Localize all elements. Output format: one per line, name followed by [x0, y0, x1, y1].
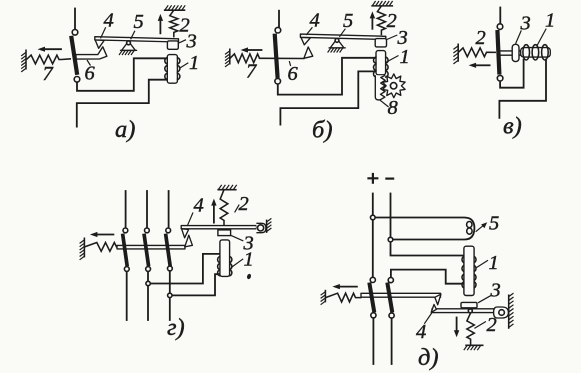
pivot node: blade top circle (panel v): [497, 24, 503, 30]
armature block 3 (panel g): [218, 230, 231, 236]
node: blade top circles (panel g): [123, 228, 128, 233]
label 1 leader (panel a): [180, 63, 189, 69]
pivot node: blade bottom circle (panel b): [275, 78, 281, 84]
panel d) schematic group: [321, 173, 514, 371]
contact blade 6 (panel b): [275, 34, 278, 78]
svg-text:6: 6: [85, 63, 96, 85]
spring 2 (panel a): [170, 10, 178, 37]
label 3 leader (panel g): [231, 235, 243, 241]
arrow: release direction left (panel g): [97, 234, 113, 236]
ceiling anchor with hatching (panel g): [217, 189, 236, 191]
gear wheel 8 (panel b): [383, 74, 406, 98]
svg-text:а): а): [115, 116, 135, 143]
coil 1 (panel g): [220, 240, 230, 277]
node: junction phase 2 (panel g): [146, 281, 150, 285]
arrow: pull direction up (panel g): [213, 206, 215, 223]
label 5 leader (panel a): [131, 31, 135, 40]
arrow: armature pull direction up (panel a): [159, 21, 161, 33]
lever 4 bar (panel a): [95, 37, 179, 42]
arrow: release direction left (panel d): [340, 286, 357, 288]
contact blade 2 on minus line (panel d): [387, 283, 392, 313]
holding winding 5 turns (panel d): [467, 222, 472, 228]
label 4 leader (panel b): [306, 27, 312, 35]
svg-text:1: 1: [545, 10, 555, 32]
wire: phase line 1 lower (panel g): [126, 272, 128, 321]
spring 7 (panel b): [230, 54, 262, 63]
arrow: release direction left (panel a): [45, 48, 61, 50]
actuating rod (panel g): [117, 245, 185, 249]
spring 2 below lever (panel d): [467, 313, 474, 345]
spring (panel g): [85, 243, 119, 252]
node: blade bottom circles (panel g): [124, 267, 129, 272]
actuating rod through blade (panel b): [262, 57, 305, 59]
arrow: release direction left (panel b): [248, 49, 262, 51]
svg-text:5: 5: [489, 213, 499, 235]
label minus terminal (panel d): [385, 178, 394, 180]
svg-text:6: 6: [288, 63, 299, 85]
wire: from blade bottom to coil 1 left terminal (panel v): [500, 60, 523, 88]
coil 1 body (panel v): [521, 48, 551, 58]
svg-text:4: 4: [416, 321, 426, 343]
armature block 3 on lever (panel d): [461, 302, 477, 307]
lever 4 left hook pointing up (panel d): [431, 305, 436, 313]
svg-text:3: 3: [186, 31, 197, 53]
svg-text:5: 5: [134, 11, 144, 33]
pivot node: blade bottom circle (panel v): [497, 75, 503, 81]
wall anchor left (panel d): [324, 290, 326, 303]
wire: plus line lower (panel d): [372, 318, 374, 364]
svg-text:4: 4: [310, 10, 320, 32]
label 2 leader (panel d): [474, 322, 486, 329]
contact blade phase 1 (panel g): [123, 234, 128, 267]
lever 4 left hook (panel g): [182, 229, 189, 238]
svg-text:4: 4: [194, 195, 204, 217]
label 6 leader (panel b): [289, 61, 290, 66]
wire: from coil 1 lower terminal to lower supply stub (panel b): [280, 71, 376, 124]
ceiling anchor with hatching (panel a): [164, 9, 185, 11]
rod latch hook (panel b): [304, 47, 313, 58]
label 5 leader (panel b): [339, 29, 345, 37]
wire: minus line to coil top terminal (panel d): [391, 242, 463, 256]
contact finger of blade (panel a): [76, 47, 107, 59]
arrow: release direction left (panel v): [476, 64, 490, 66]
coil 1 (panel a): [167, 55, 177, 84]
label 4 leader (panel a): [101, 27, 106, 38]
label 1 leader (panel v): [537, 29, 547, 47]
label 1 leader (panel d): [476, 260, 488, 267]
wire: minus line upper (panel d): [390, 194, 392, 238]
armature bead 3 on rod (panel v): [512, 44, 519, 61]
svg-text:2: 2: [476, 27, 486, 49]
label 5 arrow leader (panel d): [476, 225, 485, 232]
svg-text:д): д): [418, 344, 439, 371]
contact blade phase 2 (panel g): [144, 234, 149, 267]
wall anchor left (panel g): [83, 238, 85, 258]
node: junction on plus line (panel d): [371, 215, 376, 220]
svg-text:5: 5: [343, 10, 353, 32]
lever 4 left hook (panel a): [95, 40, 104, 48]
actuating rod (panel d): [361, 293, 441, 297]
contact blade 6 (panel a): [71, 36, 77, 75]
lever pivot bracket at wall (panel g): [256, 223, 266, 232]
label plus terminal (panel d): [367, 173, 378, 184]
spring 7 (panel a): [27, 55, 72, 64]
node: blade 2 top circle (panel d): [388, 278, 393, 283]
spring (panel d): [326, 293, 362, 302]
arrow: armature pull direction up (panel b): [371, 18, 373, 28]
node: spring attachment circle on lever (panel d): [468, 309, 472, 313]
svg-text:1: 1: [189, 52, 199, 74]
panel b) schematic group: [225, 1, 410, 144]
svg-text:в): в): [503, 113, 522, 140]
wall anchor right (panel g): [266, 220, 268, 233]
rod latch hook pointing down (panel d): [435, 294, 441, 305]
label 3 leader (panel d): [478, 296, 491, 303]
label 3 leader (panel a): [179, 40, 186, 43]
armature block 3 (panel a): [167, 41, 178, 49]
wire: supply lead top (panel b): [278, 11, 280, 27]
coil 1 (panel d): [464, 246, 474, 295]
svg-text:1: 1: [489, 252, 499, 274]
svg-text:3: 3: [520, 13, 531, 35]
node: blade 1 top circle (panel d): [370, 277, 375, 282]
wire: phase line 1 upper (panel g): [125, 191, 127, 228]
label 4 leader (panel d): [424, 313, 432, 324]
spring 2 (panel v): [458, 48, 496, 57]
svg-text:7: 7: [43, 63, 54, 85]
ink speck under label 1 (panel g): [246, 273, 251, 279]
wall anchor right (panel d): [508, 295, 510, 329]
wire: phase line 2 lower (panel g): [147, 272, 149, 321]
svg-text:г): г): [167, 314, 185, 341]
wire: supply lead top (panel v): [499, 8, 501, 24]
rod latch hook (panel g): [185, 235, 193, 247]
spring 2 (panel g): [220, 190, 228, 226]
wire: from coil 1 right terminal to lower supply stub (panel v): [499, 60, 546, 118]
svg-text:8: 8: [388, 97, 399, 119]
fulcrum 5 triangle with base hatching (panel b): [330, 39, 344, 48]
holding winding 5 top run (panel d): [375, 218, 474, 240]
ceiling anchor with hatching (panel b): [371, 5, 393, 7]
label 3 leader (panel v): [516, 30, 522, 43]
panel a) schematic group: [21, 5, 199, 143]
label 2 leader (panel g): [235, 205, 240, 213]
svg-text:2: 2: [239, 193, 249, 215]
pivot node: blade bottom circle (panel a): [74, 77, 80, 83]
label 3 leader (panel b): [387, 35, 398, 40]
wall anchor left (panel b): [229, 49, 231, 65]
fulcrum 5 triangle with base hatching (panel a): [122, 41, 136, 50]
contact blade phase 3 (panel g): [166, 234, 171, 267]
label 1 leader (panel g): [231, 259, 243, 268]
svg-text:4: 4: [104, 9, 114, 31]
wire: plus line upper (panel d): [372, 194, 374, 216]
wire: phase line 3 lower (panel g): [169, 271, 171, 320]
armature rod (panel v): [499, 51, 522, 55]
label 1 leader (panel b): [387, 56, 399, 63]
wire: phase 3 junction to coil 1 lower terminal (panel g): [172, 274, 220, 295]
arrow: pull direction down (panel d): [456, 318, 458, 331]
wire: phase line 2 upper (panel g): [146, 191, 148, 228]
panel v) schematic group: [453, 8, 555, 140]
wire: supply lead top (panel a): [74, 9, 76, 30]
panel g) schematic group: [80, 185, 272, 341]
lever 4 bar (panel d): [432, 309, 496, 313]
armature block 3 (panel b): [375, 39, 386, 47]
wire: phase 2 junction to coil 1 upper terminal (panel g): [150, 254, 220, 284]
spring 2 (panel b): [377, 6, 385, 35]
wire: phase line 3 upper (panel g): [168, 191, 170, 228]
wire: from contact blade 6 bottom to coil 1 top terminal (panel a): [77, 58, 167, 91]
wire: minus line lower (panel d): [391, 318, 393, 364]
wall anchor left (panel a): [25, 50, 27, 70]
node: junction on minus line (panel d): [388, 237, 393, 242]
wire: from coil 1 bottom terminal to lower supply stub (panel a): [77, 80, 168, 127]
node: junction phase 3 (panel g): [168, 293, 172, 297]
svg-text:2: 2: [487, 314, 497, 336]
node: blade 2 bottom circle (panel d): [389, 313, 394, 318]
contact blade 1 on plus line (panel d): [369, 283, 374, 313]
label 8 leader (panel b): [380, 100, 389, 107]
pivot node: blade top circle (panel a): [72, 30, 78, 36]
svg-text:1: 1: [400, 46, 410, 68]
label 4 leader (panel g): [188, 213, 193, 226]
coil 1 turns (panel v): [523, 45, 530, 60]
lever 4 left hook (panel b): [301, 38, 310, 45]
svg-text:б): б): [312, 117, 332, 144]
lever pivot bracket at wall (panel d): [494, 307, 509, 318]
svg-text:2: 2: [387, 10, 397, 32]
contact blade (panel v): [497, 30, 499, 75]
lever 4 bar (panel b): [300, 34, 385, 39]
wall anchor left (panel v): [457, 44, 459, 62]
wire: plus line middle (panel d): [372, 220, 374, 277]
wire: from blade 6 bottom to coil 1 upper terminal (panel b): [278, 58, 376, 95]
svg-text:1: 1: [244, 249, 254, 271]
floor anchor with hatching (panel d): [465, 344, 483, 346]
toothed rack below coil (panel b): [375, 75, 385, 100]
pivot node: blade top circle (panel b): [275, 27, 281, 33]
label 6 leader (panel a): [87, 60, 91, 66]
svg-text:3: 3: [490, 280, 501, 302]
coil 1 (panel b): [376, 51, 386, 75]
lever 4 bar (panel g): [181, 226, 256, 229]
wire: blade 2 top to coil bottom terminal (panel d): [391, 270, 463, 284]
svg-text:7: 7: [246, 61, 257, 83]
node: blade 1 bottom circle (panel d): [371, 313, 376, 318]
